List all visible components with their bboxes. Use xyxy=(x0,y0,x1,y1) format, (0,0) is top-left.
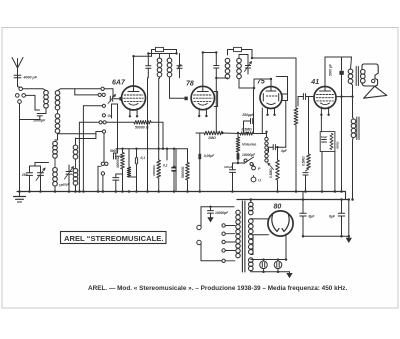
output transformer core xyxy=(356,67,358,86)
svg-text:78: 78 xyxy=(186,80,194,87)
speaker cone xyxy=(364,86,387,98)
switch contact S6a xyxy=(101,162,104,165)
label 41 xyxy=(310,79,319,86)
resistor 30000 ohm osc xyxy=(116,149,124,192)
svg-text:0,05µF: 0,05µF xyxy=(204,154,215,158)
dial lamp 1 xyxy=(260,258,268,268)
capacitor 0.05uF electrolytic xyxy=(198,133,215,192)
resistor 50000 grid leak xyxy=(176,149,189,192)
coil L5 oscillator grid lower xyxy=(53,158,58,192)
trimmer IF2 secondary xyxy=(245,55,252,75)
coil L6 oscillator plate upper xyxy=(73,138,78,159)
antenna xyxy=(12,58,23,80)
switch contact S2a xyxy=(98,93,101,96)
svg-text:2000pF: 2000pF xyxy=(33,119,47,123)
tube 6A7 grid cap xyxy=(119,97,122,101)
coil L2 antenna secondary xyxy=(55,89,100,110)
coil L3 wave band xyxy=(55,110,60,140)
wire switch column vertical xyxy=(103,133,105,162)
svg-text:10000Ω: 10000Ω xyxy=(152,165,156,176)
wire horizontal y148.7 xyxy=(116,149,176,192)
svg-text:250µµF: 250µµF xyxy=(241,113,255,117)
resistor volume grid 0.5M xyxy=(236,133,257,152)
switch contact S2b xyxy=(75,89,105,97)
junction dots power rails xyxy=(250,198,354,273)
svg-text:Volume: Volume xyxy=(242,142,257,147)
wire IF2 primary bottom xyxy=(216,78,227,79)
output transformer T-out secondary xyxy=(361,70,366,84)
svg-text:AREL. — Mod. « Stereomusical: AREL. — Mod. « Stereomusicale ». – Produ… xyxy=(88,285,347,292)
capacitor 4uF cathode 75 xyxy=(269,145,288,153)
IF transformer T-IF1 secondary coil xyxy=(167,54,172,77)
svg-text:10000µF: 10000µF xyxy=(242,153,256,157)
power transformer secondary filament bottom xyxy=(249,258,254,271)
terminal Gm xyxy=(102,114,113,118)
capacitor 100uF bias xyxy=(224,163,238,192)
svg-text:250: 250 xyxy=(21,173,28,177)
resistor plate load 75 xyxy=(294,108,298,192)
svg-text:8µF: 8µF xyxy=(309,214,316,218)
svg-text:10µF: 10µF xyxy=(321,135,328,139)
wire vertical x79.4 band switch xyxy=(78,122,80,191)
switch radio-PU xyxy=(238,157,254,166)
svg-text:5000 pF: 5000 pF xyxy=(329,63,333,76)
resistor 50000 ohm 6A7 cathode xyxy=(134,121,151,130)
wire vertical x216 AVC xyxy=(215,78,217,133)
tube 75 xyxy=(260,87,282,117)
capacitor mains filter 10000 xyxy=(208,206,230,215)
resistor 10000 ohm screen xyxy=(152,160,161,192)
wire 80 cathode to lamps xyxy=(285,234,287,260)
svg-text:10000pF: 10000pF xyxy=(215,211,229,215)
ground arrow mains filter xyxy=(207,213,213,222)
terminal antenna A3 xyxy=(22,94,26,98)
wire 41 cathode xyxy=(321,115,335,192)
potentiometer 500000 volume xyxy=(265,137,274,169)
svg-text:80: 80 xyxy=(274,204,282,211)
label 78 xyxy=(186,80,194,87)
terminal antenna A2 xyxy=(15,94,19,98)
resistor 0.5 Mohm diode load xyxy=(240,127,254,135)
svg-text:0,1: 0,1 xyxy=(141,156,146,160)
resistor bias small xyxy=(127,149,136,192)
capacitor IF1 primary tuning xyxy=(146,54,151,73)
tube 78 grid cap xyxy=(184,97,187,101)
wire terminal A3 to cap xyxy=(26,95,40,110)
wire IF1 top link xyxy=(148,53,176,55)
svg-text:50000 Ω: 50000 Ω xyxy=(135,126,149,130)
switch contact S4a xyxy=(99,121,102,124)
wire vertical x158.7 down xyxy=(158,79,160,161)
capacitor 10000uF electrolytic xyxy=(237,152,256,163)
capacitor osc feedback xyxy=(113,174,123,192)
wire bus jog xyxy=(345,192,347,200)
ground arrow right xyxy=(346,238,352,243)
tube 80 xyxy=(268,211,293,236)
IF transformer T-IF2 secondary coil xyxy=(237,55,248,79)
wire 41 plate up xyxy=(325,57,352,87)
speaker body xyxy=(362,64,378,86)
wire B+ top x252-296 xyxy=(252,58,296,108)
switch contact S7 xyxy=(101,172,104,192)
wire HV to 80 anode 2 xyxy=(251,235,269,255)
tube 78 xyxy=(191,86,214,117)
svg-text:0,5MΩ: 0,5MΩ xyxy=(302,156,306,166)
power transformer primary coil xyxy=(236,210,240,258)
trimmer oscillator C-t2 xyxy=(59,165,74,192)
wire 6A7 plate to IF1 xyxy=(134,56,152,86)
resistor plate decoupling IF1 top xyxy=(152,47,177,56)
wire L3 tap to switch xyxy=(58,133,97,135)
chassis ground symbol xyxy=(14,192,26,203)
label 75 xyxy=(257,79,265,86)
wire vertical x83.4 band switch xyxy=(82,106,84,192)
cathode network 41 10uF 420ohm xyxy=(320,132,339,152)
capacitor IF2 primary xyxy=(214,53,219,79)
terminal U pickup xyxy=(251,176,261,183)
wire 78 screen bracket xyxy=(214,92,217,107)
power transformer secondary HV xyxy=(249,219,254,254)
wire mains to taps xyxy=(201,207,234,261)
wire switch elbow y138.5 xyxy=(76,132,103,139)
resistor decoupling IF2 top xyxy=(228,47,253,58)
svg-text:5000: 5000 xyxy=(110,149,117,153)
label 80 xyxy=(274,204,282,211)
wire trimmer drop xyxy=(112,104,118,153)
svg-text:50000Ω: 50000Ω xyxy=(181,166,185,178)
capacitor 0.1 screen xyxy=(135,149,145,177)
IF transformer T-IF1 primary coil xyxy=(157,54,162,77)
wire resistor to x163 xyxy=(114,121,164,123)
wire B+ drop to ground arrow xyxy=(348,200,350,238)
switch contact S4b xyxy=(79,121,113,124)
svg-text:AREL “STEREOMUSICALE.: AREL “STEREOMUSICALE. xyxy=(64,234,163,243)
capacitor 250 uuF xyxy=(241,113,255,134)
wire IF2 secondary to 75 top cap xyxy=(239,79,271,88)
power transformer taps xyxy=(222,224,235,263)
capacitor 0.1 AF coupling xyxy=(163,149,177,192)
svg-text:6A7: 6A7 xyxy=(112,80,126,87)
wire x254 diode to pot xyxy=(253,88,255,134)
svg-text:1MΩ: 1MΩ xyxy=(208,136,216,140)
wire 78 plate to IF2 xyxy=(203,53,217,87)
dial lamp 2 xyxy=(274,258,282,268)
trimmer 6A7 grid xyxy=(108,95,121,104)
svg-text:420Ω: 420Ω xyxy=(336,141,340,150)
tube 41 xyxy=(314,87,336,117)
power transformer secondary filament top xyxy=(249,200,254,215)
wire antenna to coil T1 xyxy=(18,87,44,89)
wire AVC chain xyxy=(196,108,267,137)
power transformer core xyxy=(242,201,245,272)
capacitor 8uF filter 1 xyxy=(300,192,316,237)
svg-text:0,5MΩ: 0,5MΩ xyxy=(269,168,273,178)
coil L4 oscillator grid upper xyxy=(53,140,58,158)
label 6A7 xyxy=(112,80,126,87)
resistor 1 Mohm AVC xyxy=(204,131,223,140)
coil L7 oscillator plate lower xyxy=(73,159,78,192)
switch contact S3 xyxy=(83,104,105,107)
terminal mains L1 xyxy=(197,225,201,229)
svg-text:100µF: 100µF xyxy=(224,165,233,169)
terminal antenna A1 xyxy=(19,87,23,91)
capacitor padder 250pF xyxy=(21,166,33,192)
capacitor 5000pF tone xyxy=(329,57,344,97)
terminal ground post xyxy=(18,100,22,104)
resistor 0.5M 75 cathode xyxy=(269,147,280,191)
output transformer T-out primary xyxy=(348,57,353,97)
tube 6A7 xyxy=(122,86,146,118)
capacitor 8uF filter 2 xyxy=(329,200,345,237)
capacitor coupling to 41 grid xyxy=(298,94,314,107)
junction dots mid wires xyxy=(121,51,278,168)
switch contact S5 xyxy=(102,130,105,133)
svg-text:U: U xyxy=(258,179,261,183)
wire vertical x147.5 down xyxy=(147,78,149,192)
capacitor 5000 osc xyxy=(110,149,123,159)
wire 75 diode bracket xyxy=(277,77,288,148)
wire lamp rail top xyxy=(251,259,286,261)
wire speaker return xyxy=(336,95,353,191)
svg-text:4000 pF: 4000 pF xyxy=(23,76,38,80)
field coil choke xyxy=(351,97,359,200)
wire left ground drop xyxy=(19,103,21,191)
wire x167.8 drop xyxy=(166,149,168,160)
ground arrow filament xyxy=(286,272,292,278)
wire switch stair lower xyxy=(98,166,101,191)
wire filter bottom rail xyxy=(303,235,349,237)
wire IF1 secondary to 78 grid xyxy=(170,77,185,98)
terminal mains L2 xyxy=(197,240,201,244)
trimmer IF1 secondary xyxy=(177,54,182,73)
title box AREL STEREOMUSICALE xyxy=(61,232,167,244)
wire padder top link xyxy=(30,163,49,167)
svg-text:0,5MΩ: 0,5MΩ xyxy=(242,127,253,131)
wire 75 pin drops xyxy=(267,116,269,119)
wire lamp rail bottom xyxy=(251,269,290,272)
wire main ground bus xyxy=(17,191,346,193)
junction dots ground bus xyxy=(18,190,343,193)
wire B+ bus lower xyxy=(237,199,349,201)
svg-text:8µF: 8µF xyxy=(329,214,336,218)
svg-text:4µF: 4µF xyxy=(280,149,288,153)
svg-text:30000Ω: 30000Ω xyxy=(116,156,120,168)
switch contact S6b xyxy=(105,162,108,165)
svg-text:75: 75 xyxy=(257,79,265,86)
IF transformer T-IF2 primary coil xyxy=(225,58,230,78)
wire x163 drop xyxy=(162,122,164,148)
wire HV to 80 anode 1 xyxy=(251,218,268,220)
terminal P pickup xyxy=(252,165,261,172)
resistor 0.5M 41 grid xyxy=(302,97,311,192)
trimmer oscillator C-t1 xyxy=(36,166,45,192)
svg-text:41: 41 xyxy=(310,79,319,86)
svg-text:0,1: 0,1 xyxy=(163,164,168,168)
caption text xyxy=(88,285,347,292)
switch contact S1 xyxy=(101,87,113,96)
coil L1 antenna primary xyxy=(42,89,48,114)
capacitor 2000pF antenna xyxy=(20,114,47,123)
capacitor antenna series 4000pF xyxy=(14,75,38,86)
wire IF1 bottom xyxy=(148,73,179,79)
